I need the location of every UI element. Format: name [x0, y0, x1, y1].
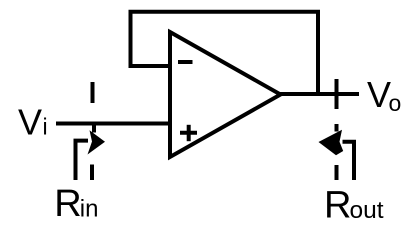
op-amp U1 triangle body [170, 32, 281, 157]
wire: feedback loop from output node up over the top to inverting input [131, 12, 319, 95]
arrow: Rin looking-into-input arrow [76, 141, 89, 180]
pin label: non-inverting input plus sign [180, 131, 197, 135]
wire: output wire from op-amp apex to Vo [278, 92, 359, 96]
arrow: Rout looking-into-output arrow [343, 142, 355, 180]
pin label: inverting input minus sign [178, 60, 193, 64]
node: dashed cut line at output terminal [335, 79, 339, 109]
wire: input wire from Vi to non-inverting input [56, 122, 172, 126]
node: dashed cut line at input terminal [91, 82, 95, 103]
